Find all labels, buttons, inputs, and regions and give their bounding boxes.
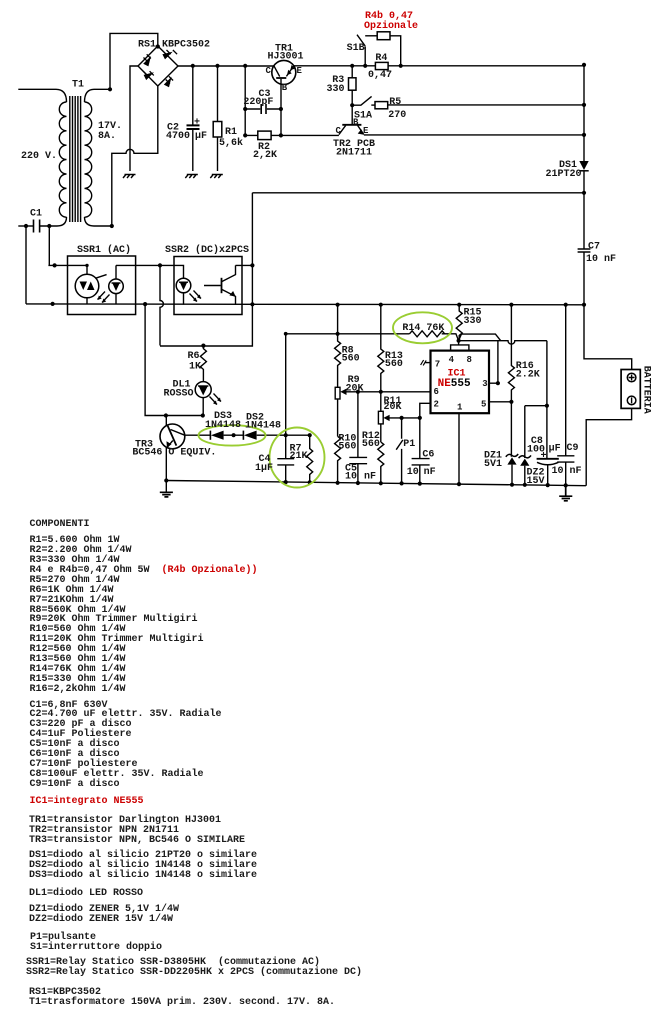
- svg-text:SSR2 (DC)x2PCS: SSR2 (DC)x2PCS: [165, 244, 249, 256]
- capacitor C6: [412, 418, 430, 484]
- svg-text:C: C: [336, 126, 342, 136]
- node rail DS1: [582, 63, 586, 67]
- led SSR1 input: [109, 279, 124, 294]
- led arrows heads DL1: [216, 304, 218, 306]
- diode DS2 triangle: [244, 431, 257, 440]
- node rail R13: [379, 303, 383, 307]
- battery terminal minus: [627, 396, 636, 405]
- svg-text:5: 5: [481, 400, 486, 410]
- node gnd C9: [564, 483, 568, 487]
- led DL1 arrows: [210, 394, 222, 405]
- node gnd C4: [284, 480, 288, 484]
- switch S1A: [352, 96, 371, 105]
- battery box: [621, 370, 640, 409]
- capacitor C8: [537, 458, 559, 460]
- transformer T1 secondary winding: [85, 89, 112, 226]
- node C3 right: [279, 107, 283, 111]
- rectifier RS1 bridge diamond: [138, 46, 178, 86]
- node R14 corner: [284, 332, 288, 336]
- node R8 line334: [336, 332, 340, 336]
- svg-text:3: 3: [482, 379, 487, 389]
- node SSR1 pin top: [53, 263, 57, 267]
- svg-text:C9: C9: [567, 443, 579, 454]
- wire TR2 emitter line to DS1 node: [364, 134, 584, 136]
- svg-text:1K: 1K: [189, 362, 201, 373]
- wire battery plus branch vertical: [160, 193, 252, 346]
- diode DS1 arrow: [579, 161, 588, 170]
- svg-text:R5: R5: [389, 97, 401, 108]
- svg-text:+: +: [194, 118, 200, 129]
- wire node to C8 (hop over R16): [459, 341, 547, 344]
- svg-text:nF: nF: [424, 467, 436, 478]
- node rail TR3 branch: [143, 302, 147, 306]
- transistor TR3 emitter arrow: [167, 441, 172, 447]
- node rail S1B: [363, 64, 367, 68]
- svg-text:R14 76K: R14 76K: [402, 323, 444, 334]
- svg-text:ROSSO: ROSSO: [164, 389, 194, 400]
- wire R4b to rail: [390, 36, 401, 66]
- node SSR2 collector: [250, 263, 254, 267]
- relay SSR1 box: [68, 256, 136, 315]
- node C1 left: [24, 224, 28, 228]
- resistor R12: [378, 442, 384, 483]
- capacitor C4: [277, 435, 294, 482]
- node DS1 bottom: [582, 191, 586, 195]
- wire battery minus return: [586, 408, 631, 485]
- svg-text:µF: µF: [195, 131, 207, 142]
- zener DZ2: [524, 406, 526, 485]
- svg-text:SSR1 (AC): SSR1 (AC): [77, 244, 131, 256]
- wire DS1 to C7: [583, 193, 585, 305]
- wire TR3 emitter to ground: [165, 448, 167, 492]
- ground R1: [210, 175, 223, 179]
- wire pin2 stub: [420, 403, 431, 418]
- zener DZ1 triangle: [507, 457, 516, 464]
- svg-text:330: 330: [464, 316, 482, 327]
- pushbutton P1: [396, 418, 403, 484]
- svg-text:5V1: 5V1: [484, 459, 502, 470]
- svg-text:µF: µF: [549, 444, 561, 455]
- wire DS3 to DS2: [224, 434, 244, 436]
- svg-text:560: 560: [362, 439, 380, 450]
- svg-text:T1: T1: [72, 79, 84, 90]
- zener DZ1: [510, 402, 513, 485]
- switch S1B: [357, 35, 365, 66]
- svg-text:270: 270: [388, 110, 406, 121]
- led DL1: [195, 382, 211, 398]
- capacitor C5: [349, 392, 367, 483]
- resistor R6: [200, 346, 206, 382]
- component list zeners: [29, 905, 179, 925]
- transformer T1 core: [70, 96, 81, 222]
- svg-text:R6: R6: [188, 351, 200, 362]
- wire pins 4-8 bracket: [451, 341, 469, 351]
- node rail R8: [336, 303, 340, 307]
- component list diodes: [29, 851, 257, 881]
- component list led: [29, 889, 143, 899]
- wire R5 line to DS1 node: [388, 104, 584, 106]
- wire R14 to node: [442, 334, 501, 341]
- svg-text:560: 560: [385, 359, 403, 370]
- node gnd C5: [356, 481, 360, 485]
- wire C1 left node down: [25, 226, 27, 304]
- wire S1A to R5: [371, 104, 375, 106]
- wire R1 branch: [217, 66, 219, 171]
- svg-text:21K: 21K: [290, 451, 308, 462]
- triac SSR1: [75, 274, 99, 298]
- node R7 top: [308, 433, 312, 437]
- component list resistors: [30, 536, 258, 695]
- svg-text:1µF: 1µF: [255, 463, 273, 474]
- node triac top: [85, 264, 88, 267]
- node rail C9: [564, 303, 568, 307]
- wire TR3 collector to diode row: [185, 434, 211, 436]
- component list switches: [30, 933, 162, 953]
- ground bridge minus: [123, 175, 136, 179]
- wire TR1 base: [280, 79, 282, 136]
- resistor R4: [375, 62, 388, 69]
- node R15 bottom: [457, 339, 461, 343]
- node R2 right: [279, 133, 283, 137]
- wire secondary bottom to bridge AC2 (hop over ground wire): [112, 86, 158, 226]
- node R6 top: [201, 344, 205, 348]
- svg-text:BC546 O EQUIV.: BC546 O EQUIV.: [132, 448, 216, 459]
- highlight ellipse R14: [393, 312, 452, 343]
- wire pin5 stub: [489, 401, 511, 403]
- svg-text:6: 6: [434, 387, 439, 397]
- wire DS1 branch vertical: [583, 65, 585, 193]
- wire C3 leads: [245, 108, 281, 110]
- svg-text:BATTERIA: BATTERIA: [641, 366, 652, 414]
- transistor TR3: [160, 424, 185, 449]
- resistor R15: [456, 305, 462, 341]
- wire R2 leads: [245, 134, 281, 136]
- diode RS1 arrows: [143, 52, 173, 88]
- node R2 left: [243, 133, 247, 137]
- led SSR2 triangle: [180, 282, 187, 290]
- wire pin7 stub: [425, 362, 430, 364]
- wire C1 node to SSR1 top pin: [48, 226, 87, 265]
- node pin6 R11: [379, 390, 383, 394]
- svg-text:4700: 4700: [166, 131, 190, 142]
- node rail R16: [509, 303, 513, 307]
- svg-text:8: 8: [467, 355, 472, 365]
- diode RS1 bottom-left: [143, 71, 154, 75]
- resistor R2: [258, 131, 271, 140]
- wire lower supply rail: [26, 303, 584, 306]
- svg-text:220pF: 220pF: [243, 97, 273, 108]
- node gnd R12: [379, 481, 383, 485]
- svg-text:330: 330: [327, 84, 345, 95]
- wire pin3 stub: [489, 341, 498, 383]
- transistor TR1: [272, 60, 296, 84]
- node rail R15: [457, 303, 461, 307]
- svg-text:10 nF: 10 nF: [586, 254, 616, 265]
- wire secondary top to bridge AC1: [110, 33, 158, 89]
- wire R3 branch: [351, 66, 353, 125]
- svg-text:0,47: 0,47: [368, 70, 392, 81]
- svg-text:10: 10: [345, 471, 357, 482]
- wire TR2 collector to R2 row: [281, 134, 339, 136]
- node DZ2 C8: [545, 404, 549, 408]
- svg-text:1N4148: 1N4148: [245, 420, 281, 431]
- capacitor C7: [578, 249, 591, 252]
- svg-text:HJ3001: HJ3001: [268, 51, 304, 62]
- svg-text:B: B: [353, 117, 359, 127]
- resistor R1: [213, 122, 222, 138]
- svg-text:R4: R4: [375, 53, 387, 64]
- led SSR1 arrows: [98, 292, 110, 303]
- resistor R13 chain: [378, 305, 384, 412]
- node SSR1 pin bottom: [51, 302, 55, 306]
- wire SSR rail to TR3 base: [145, 305, 203, 416]
- component list capacitors: [30, 701, 222, 791]
- wire mains input top: [18, 88, 56, 90]
- svg-text:15V: 15V: [527, 476, 545, 487]
- component list rectifier transformer: [29, 988, 335, 1008]
- node secondary bottom: [110, 224, 114, 228]
- svg-text:560: 560: [342, 353, 360, 364]
- svg-text:C7: C7: [588, 241, 600, 252]
- node pin3 corner: [496, 381, 500, 385]
- diode RS1 bottom-right: [166, 76, 173, 83]
- component list relays: [26, 958, 362, 978]
- phototransistor SSR2 emitter arrow: [229, 291, 235, 297]
- node pin6 C5: [356, 390, 360, 394]
- wire SSR1 led anode to SSR2 led anode: [116, 265, 184, 278]
- svg-text:R1: R1: [225, 127, 237, 138]
- resistor R10: [335, 436, 341, 483]
- capacitor C2: [187, 125, 200, 129]
- wire C2 branch: [192, 66, 194, 171]
- node rail SSR2: [250, 302, 254, 306]
- resistor R14: [410, 331, 445, 337]
- transformer T1 primary winding: [56, 89, 67, 226]
- node S1A: [350, 103, 354, 107]
- wire diode node up to R14 line: [286, 334, 410, 435]
- svg-text:4: 4: [449, 355, 455, 365]
- svg-text:10: 10: [552, 466, 564, 477]
- svg-text:nF: nF: [570, 466, 582, 477]
- node gnd TR3: [164, 478, 168, 482]
- node gnd R7: [308, 480, 312, 484]
- wire mains input bottom: [18, 225, 33, 227]
- wire battery plus horizontal: [252, 192, 584, 194]
- node opto leds: [158, 263, 162, 267]
- svg-text:7: 7: [435, 360, 440, 370]
- node pin5 R16: [509, 400, 513, 404]
- diode RS1 top-left: [144, 54, 151, 61]
- svg-text:2N1711: 2N1711: [336, 147, 372, 158]
- transistor TR2: [342, 124, 361, 126]
- wire DL1 cathode: [202, 398, 204, 416]
- wire C3/R2 left branch: [244, 66, 246, 136]
- node rail R1: [215, 64, 219, 68]
- svg-text:NE555: NE555: [438, 378, 471, 390]
- node rail R4 right: [399, 64, 403, 68]
- trimmer R9 wiper arrow: [340, 389, 346, 395]
- svg-text:1: 1: [457, 403, 463, 413]
- wire SSR2 collector to battery line: [236, 264, 253, 266]
- resistor R3: [349, 78, 357, 90]
- wire main rail bridge to TR1: [178, 65, 274, 67]
- svg-text:B: B: [282, 83, 288, 93]
- node C3 left: [243, 107, 247, 111]
- capacitor C3: [261, 104, 266, 114]
- node wiper P1: [400, 416, 404, 420]
- node gnd pin1: [457, 482, 461, 486]
- node rail C2: [191, 64, 195, 68]
- svg-text:S1B: S1B: [347, 43, 365, 54]
- diode RS1 top-right: [167, 50, 178, 54]
- integrated circuit IC1 NE555: [431, 351, 490, 414]
- diode DS1: [579, 170, 588, 172]
- resistor R8 chain: [335, 305, 341, 388]
- svg-text:20K: 20K: [346, 383, 364, 394]
- node DL1 cathode: [201, 413, 205, 417]
- svg-text:560: 560: [338, 441, 356, 452]
- svg-text:1N4148: 1N4148: [205, 420, 241, 431]
- node C1 right: [47, 224, 51, 228]
- diode DS2: [242, 431, 244, 440]
- resistor R16: [508, 305, 514, 402]
- led SSR2 input: [176, 278, 191, 293]
- svg-text:C1: C1: [30, 208, 42, 219]
- led SSR2 arrows: [190, 291, 202, 302]
- ground C2: [185, 175, 198, 179]
- node diode R14 branch: [284, 433, 288, 437]
- svg-text:C: C: [266, 66, 272, 76]
- battery terminal plus: [627, 373, 636, 382]
- svg-text:2,2K: 2,2K: [253, 150, 277, 161]
- wire main rail TR1 emitter to right: [294, 65, 584, 67]
- node TR3 base: [164, 413, 168, 417]
- wire pin1 to ground rail: [458, 413, 460, 484]
- wire DZ2 branch: [525, 341, 547, 459]
- node gnd C6: [418, 482, 422, 486]
- node TR2-E DS1: [582, 133, 586, 137]
- trimmer R9: [335, 387, 340, 399]
- highlight ellipse DS3 DS2: [199, 425, 266, 445]
- wire C1 to primary: [40, 225, 57, 227]
- svg-text:C6: C6: [422, 449, 434, 460]
- led arrows heads SSR2: [193, 295, 201, 302]
- phototransistor SSR2: [204, 285, 221, 287]
- component list IC: [30, 797, 144, 807]
- svg-text:8A.: 8A.: [98, 131, 116, 142]
- svg-text:E: E: [297, 66, 303, 76]
- svg-text:E: E: [363, 126, 369, 136]
- wire battery plus: [584, 305, 632, 370]
- diode DS3: [209, 431, 211, 440]
- node secondary top: [108, 87, 112, 91]
- svg-text:P1: P1: [403, 439, 415, 450]
- capacitor C9: [557, 305, 574, 486]
- node R5 DS1: [582, 103, 586, 107]
- wire DS2 to R7 node: [257, 434, 310, 436]
- wire S1B to R4b: [365, 35, 377, 37]
- wire bridge minus to ground: [130, 66, 138, 171]
- svg-text:10: 10: [407, 467, 419, 478]
- node rail R3: [350, 64, 354, 68]
- triac SSR1 triangles: [80, 282, 95, 291]
- wire R9 wiper to pin6: [345, 391, 431, 393]
- node gnd R10: [336, 481, 340, 485]
- ground TR3: [160, 492, 173, 497]
- zener DZ2 triangle: [520, 459, 529, 466]
- ground C9: [559, 485, 572, 500]
- pin7 no-connect mark: [421, 360, 427, 365]
- node gnd P1: [400, 481, 404, 485]
- node bridge AC1: [156, 44, 160, 48]
- svg-text:21PT20: 21PT20: [546, 169, 582, 180]
- led DL1 triangle: [199, 386, 208, 395]
- svg-text:Opzionale: Opzionale: [364, 20, 418, 32]
- wire opto node down to R6 line (hop over rail): [160, 265, 163, 345]
- node gnd C8: [546, 483, 550, 487]
- node wiper pin2: [418, 416, 422, 420]
- component list title: [30, 520, 90, 530]
- component list transistors: [29, 816, 245, 846]
- led arrows heads SSR1: [98, 296, 106, 303]
- transistor TR2 emitter arrow: [358, 129, 364, 135]
- wire R11 wiper row: [387, 417, 420, 419]
- highlight ellipse C4 R7: [270, 428, 325, 488]
- svg-text:2.2K: 2.2K: [516, 369, 540, 380]
- relay SSR2 box: [174, 257, 242, 315]
- wire lower ground rail: [166, 481, 586, 486]
- svg-text:220 V.: 220 V.: [21, 151, 57, 162]
- trimmer R11 wiper arrow: [383, 415, 389, 421]
- resistor R7: [307, 435, 313, 482]
- led SSR1 triangle: [112, 283, 119, 291]
- node C7 bottom: [582, 303, 586, 307]
- resistor R5: [375, 102, 388, 109]
- node diode mid: [232, 433, 236, 437]
- trimmer R11: [378, 411, 383, 424]
- node rail C3 branch: [243, 64, 247, 68]
- svg-text:RS1 KBPC3502: RS1 KBPC3502: [138, 39, 210, 50]
- node gnd DZ1: [510, 483, 514, 487]
- transistor TR1 emitter arrows: [287, 65, 295, 75]
- svg-text:20K: 20K: [384, 402, 402, 413]
- svg-text:2: 2: [434, 400, 439, 410]
- capacitor C1: [34, 220, 40, 233]
- node gnd DZ2: [523, 483, 527, 487]
- svg-text:nF: nF: [364, 471, 376, 482]
- svg-text:+: +: [541, 451, 547, 462]
- diode DS3 triangle: [211, 431, 224, 440]
- resistor R4b: [377, 32, 390, 40]
- svg-text:5,6k: 5,6k: [219, 137, 243, 149]
